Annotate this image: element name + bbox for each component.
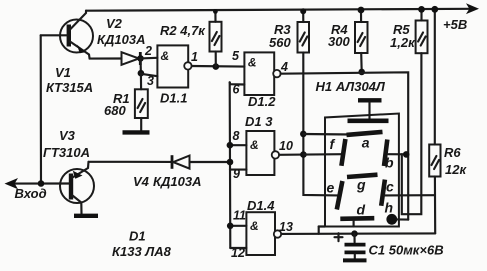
- svg-text:13: 13: [279, 220, 293, 234]
- capacitor C1: [345, 234, 366, 259]
- wire R4 top lead: [360, 10, 362, 22]
- svg-text:Вход: Вход: [15, 186, 47, 201]
- wire R5 bottom lead to h-row: [402, 53, 422, 214]
- node rail R6: [431, 6, 438, 13]
- wire pin 11 stub: [230, 225, 246, 227]
- segment b: [384, 140, 387, 167]
- svg-text:КТ315А: КТ315А: [46, 80, 93, 95]
- svg-text:a: a: [362, 135, 370, 151]
- wire D1.2 output / display top edge: [281, 72, 409, 219]
- svg-text:5: 5: [232, 49, 240, 63]
- svg-text:ГТ310А: ГТ310А: [43, 145, 90, 160]
- op-amp gate D1.2: [244, 52, 280, 95]
- svg-text:8: 8: [233, 129, 240, 143]
- svg-text:D1 3: D1 3: [245, 114, 273, 129]
- resistor R3: [298, 22, 310, 53]
- wire to pin 2: [141, 57, 158, 60]
- wire V1 emitter to diode V2: [90, 57, 122, 59]
- wire f-row: [303, 153, 342, 156]
- resistor R5: [416, 21, 428, 54]
- wire pin 13 bottom: [281, 232, 435, 235]
- node a-row junction: [300, 131, 307, 138]
- common electrode plate top: [358, 98, 382, 102]
- node b-row junction: [403, 151, 410, 158]
- wire V3 collector to diode V4: [89, 161, 172, 163]
- wire junction vertical: [139, 58, 142, 73]
- diode V4: [172, 155, 190, 169]
- node bus V4: [227, 159, 234, 166]
- svg-text:4: 4: [280, 60, 288, 74]
- op-amp gate D1.4: [246, 212, 281, 255]
- node rail R4: [358, 7, 365, 14]
- resistor R2: [210, 22, 222, 52]
- diode V2: [122, 52, 141, 65]
- svg-text:КД103А: КД103А: [97, 32, 145, 47]
- wire D1.3 output: [279, 154, 303, 156]
- node bus pin8: [227, 142, 234, 149]
- svg-text:&: &: [250, 138, 259, 152]
- svg-text:D1.2: D1.2: [248, 94, 276, 109]
- svg-text:1: 1: [191, 50, 198, 64]
- segment a: [347, 132, 383, 135]
- svg-text:680: 680: [104, 103, 126, 118]
- resistor R1: [135, 89, 148, 118]
- ground V3: [74, 214, 98, 218]
- segment g: [347, 175, 378, 177]
- wire input bus vertical: [40, 35, 42, 183]
- node f-row junction: [300, 151, 307, 158]
- svg-text:V4: V4: [133, 174, 150, 189]
- segment f: [341, 139, 345, 166]
- common electrode stem: [368, 103, 370, 120]
- node diode V2 cathode junction: [137, 55, 144, 62]
- +5V rail wire: [86, 3, 479, 14]
- op-amp gate D1.3: [246, 131, 279, 175]
- segment e: [337, 181, 343, 210]
- wire a-row: [303, 133, 352, 136]
- svg-text:+5В: +5В: [443, 17, 467, 32]
- resistor R4: [355, 22, 368, 53]
- svg-text:10: 10: [279, 139, 293, 153]
- node rail R3: [300, 8, 306, 14]
- svg-text:С1 50мк×6В: С1 50мк×6В: [369, 243, 444, 258]
- svg-text:g: g: [356, 177, 366, 193]
- wire pin 6 stub: [230, 82, 245, 84]
- display H1 inner box: [325, 114, 399, 227]
- svg-text:d: d: [357, 202, 366, 218]
- svg-text:R2 4,7к: R2 4,7к: [160, 23, 206, 38]
- ground C1: [343, 258, 367, 262]
- node pin3 junction: [138, 70, 145, 77]
- wire R5 top lead: [420, 9, 422, 20]
- wire R1 top lead: [140, 73, 142, 89]
- svg-text:&: &: [250, 219, 259, 233]
- node R2 bottom junction: [213, 63, 220, 70]
- wire R4 bottom lead: [360, 53, 363, 72]
- wire D1.1 output: [192, 65, 245, 68]
- wire segment d stem: [353, 221, 355, 227]
- svg-text:e: e: [327, 180, 335, 196]
- common electrode plate bottom: [348, 119, 389, 124]
- node rail R2: [213, 9, 218, 14]
- wire pin 12 stub: [230, 247, 246, 249]
- segment d: [340, 216, 374, 221]
- svg-text:К133 ЛА8: К133 ЛА8: [112, 244, 172, 259]
- svg-text:12к: 12к: [445, 162, 467, 177]
- svg-text:1,2к: 1,2к: [390, 35, 416, 50]
- transistor V1: [60, 11, 93, 59]
- svg-text:b: b: [385, 155, 394, 171]
- wire R1 bottom lead: [140, 118, 142, 130]
- svg-text:Н1 АЛ304Л: Н1 АЛ304Л: [316, 79, 386, 94]
- svg-text:h: h: [385, 200, 394, 216]
- wire to pin 3: [141, 74, 158, 76]
- wire V4 to bus: [190, 161, 231, 163]
- label C1 plus: [335, 233, 343, 241]
- node input junction: [38, 180, 45, 187]
- wire h-row: [397, 218, 408, 220]
- wire inner box bottom extension: [319, 225, 325, 227]
- wire pin 8 stub: [230, 144, 247, 146]
- wire V1 base: [41, 34, 67, 36]
- svg-text:D1: D1: [129, 229, 146, 244]
- svg-text:D1.1: D1.1: [160, 91, 187, 106]
- transistor V3: [60, 162, 94, 214]
- segment c: [381, 180, 385, 206]
- wire R3 vertical feed: [303, 53, 337, 196]
- svg-text:11: 11: [233, 209, 246, 223]
- wire c-row: [385, 194, 435, 196]
- svg-text:2: 2: [144, 44, 152, 58]
- svg-text:V2: V2: [106, 16, 123, 31]
- svg-text:КД103А: КД103А: [153, 174, 201, 189]
- ground R1: [123, 130, 150, 134]
- wire R6 bottom lead: [434, 177, 436, 234]
- wire pin 9 stub: [230, 169, 246, 171]
- svg-text:3: 3: [147, 74, 154, 88]
- op-amp gate D1.1: [157, 45, 191, 87]
- svg-text:&: &: [248, 56, 257, 70]
- wire input with arrow: [5, 178, 70, 189]
- wire feedback bus: [229, 82, 232, 248]
- svg-text:&: &: [161, 49, 170, 63]
- segment h decimal point: [386, 214, 397, 225]
- node bus pin11: [227, 223, 234, 230]
- resistor R6: [429, 145, 440, 177]
- svg-text:D1.4: D1.4: [247, 198, 275, 213]
- svg-text:V3: V3: [59, 128, 76, 143]
- svg-text:c: c: [386, 179, 394, 195]
- svg-text:R6: R6: [444, 145, 461, 160]
- node C1 junction: [351, 230, 358, 237]
- svg-text:560: 560: [269, 35, 291, 50]
- wire b-row: [389, 153, 409, 155]
- node top wire R4 junction: [358, 69, 365, 76]
- wire R2 bottom lead: [215, 52, 217, 67]
- svg-text:300: 300: [328, 34, 350, 49]
- svg-text:V1: V1: [55, 65, 71, 80]
- wire R3 top lead: [302, 11, 304, 22]
- wire R6 feed from rail: [434, 9, 436, 144]
- wire R2 top lead: [214, 11, 216, 21]
- node rail R5: [418, 6, 425, 13]
